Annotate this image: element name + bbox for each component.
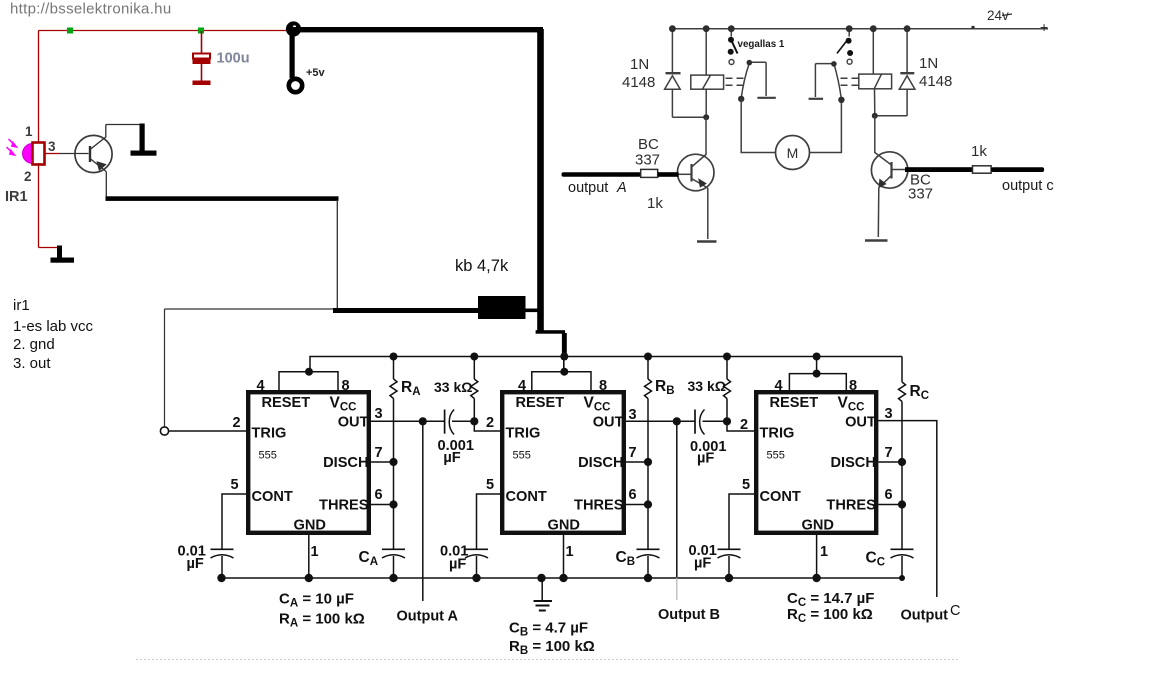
node bracket dot U1 — [305, 368, 313, 376]
svg-text:C: C — [950, 603, 960, 619]
label U2 pin names — [506, 395, 624, 534]
svg-text:337: 337 — [908, 186, 933, 203]
svg-text:5: 5 — [486, 477, 494, 493]
wire bottom rail — [222, 577, 903, 579]
svg-text:CONT: CONT — [760, 489, 801, 505]
svg-text:2. gnd: 2. gnd — [13, 336, 55, 353]
wire relay1 drop — [705, 29, 707, 75]
svg-text:7: 7 — [629, 445, 637, 461]
svg-text:µF: µF — [187, 556, 204, 572]
svg-text:8: 8 — [849, 378, 857, 394]
wire cont1 — [222, 494, 246, 549]
IR receiver IR1 body — [33, 143, 45, 165]
wire thin vertical to kb node — [336, 200, 338, 310]
svg-text:Output A: Output A — [397, 609, 459, 625]
wire thres2 — [626, 504, 648, 506]
relay K1 dashed link — [726, 78, 745, 85]
wire red IR down — [38, 163, 40, 248]
svg-text:THRES: THRES — [319, 498, 369, 514]
wire very thick vcc vertical — [537, 29, 544, 332]
resistor 1k A — [641, 169, 658, 177]
IR arrows — [7, 139, 17, 155]
svg-text:4148: 4148 — [919, 73, 952, 90]
node green junction 2 — [198, 28, 204, 34]
terminal +5v ring — [289, 79, 302, 92]
wire elbow horizontal — [536, 330, 566, 334]
svg-text:IR1: IR1 — [5, 189, 28, 205]
wire relay2 drop — [872, 29, 874, 74]
svg-text:output c: output c — [1002, 178, 1054, 194]
ground G2 thick — [51, 246, 75, 263]
wire disch2 — [626, 461, 648, 463]
node rail junction dots — [390, 353, 821, 361]
wire stub to bracket2 — [563, 356, 565, 372]
wire 555 top rail — [310, 357, 902, 372]
svg-text:7: 7 — [375, 445, 383, 461]
wire thres1 — [371, 504, 394, 506]
svg-text:RESET: RESET — [516, 395, 565, 411]
svg-text:4: 4 — [775, 378, 783, 394]
wire red to ground — [39, 247, 59, 249]
svg-text:1k: 1k — [647, 195, 663, 212]
svg-text:TRIG: TRIG — [760, 426, 795, 442]
svg-text:TRIG: TRIG — [506, 426, 541, 442]
svg-text:DISCH: DISCH — [830, 455, 875, 471]
svg-text:2: 2 — [24, 169, 32, 184]
switch vegallas1 — [728, 37, 738, 65]
wire vegallas2 drop — [848, 29, 850, 37]
transistor Q0 circle — [75, 135, 112, 172]
svg-text:RESET: RESET — [262, 395, 311, 411]
wire IR out dark to base — [60, 153, 89, 155]
capacitor 0.01uF 3 — [718, 548, 741, 550]
switch vegallas2 — [837, 38, 853, 64]
capacitor C 100u — [193, 31, 211, 85]
capacitor 0.01uF 2 — [465, 548, 488, 550]
wire pin4-pin8 bracket U2 — [532, 372, 591, 390]
svg-text:GND: GND — [802, 518, 834, 534]
svg-text:1: 1 — [820, 544, 828, 560]
svg-text:555: 555 — [513, 450, 531, 462]
wire trig1 — [169, 430, 246, 432]
resistor 33k 2 line — [726, 357, 728, 380]
resistor RB line — [647, 357, 649, 380]
wire bracket stub 3 — [816, 357, 818, 374]
svg-text:8: 8 — [599, 378, 607, 394]
svg-text:ir1: ir1 — [13, 297, 30, 314]
wire trig3 jog — [727, 421, 754, 431]
wire pin4-pin8 bracket U3 — [789, 374, 846, 390]
svg-text:2: 2 — [486, 415, 494, 431]
svg-text:kb 4,7k: kb 4,7k — [455, 257, 509, 275]
svg-text:http://bsselektronika.hu: http://bsselektronika.hu — [10, 1, 171, 18]
label pin numbers — [231, 378, 893, 560]
wire red left vertical — [38, 31, 40, 144]
svg-text:1: 1 — [566, 544, 574, 560]
wire cont2 — [477, 494, 501, 549]
svg-text:6: 6 — [885, 487, 893, 503]
svg-text:4: 4 — [257, 378, 265, 394]
wire gnd2 — [563, 535, 565, 578]
svg-text:µF: µF — [443, 450, 460, 466]
capacitor 0.001uF 1 — [444, 410, 446, 434]
label U1 pin names — [252, 395, 369, 534]
svg-text:OUT: OUT — [338, 415, 369, 431]
wire emitter down — [105, 172, 107, 199]
relay K1 coil — [691, 75, 724, 117]
svg-text:5: 5 — [742, 477, 750, 493]
svg-text:3: 3 — [48, 139, 56, 154]
node disch/thres junction dots — [389, 417, 906, 508]
op-amp timer U3 555 box — [756, 392, 876, 533]
node bracket dot U3 — [813, 370, 821, 378]
wire gnd1 — [308, 535, 310, 578]
svg-text:100u: 100u — [217, 51, 250, 67]
svg-text:GND: GND — [294, 518, 326, 534]
wire gnd3 — [816, 535, 818, 578]
svg-text:DISCH: DISCH — [323, 455, 368, 471]
wire thick output A — [562, 172, 642, 177]
wire collector to ground — [106, 124, 140, 126]
svg-text:OUT: OUT — [845, 415, 876, 431]
marquee dashed line — [136, 659, 958, 661]
svg-text:µF: µF — [697, 451, 714, 467]
wire out2 output line lower faint — [676, 578, 678, 600]
svg-text:3: 3 — [885, 406, 893, 422]
wire disch3 — [878, 461, 902, 463]
motor M loop left — [741, 99, 775, 153]
svg-text:M: M — [787, 145, 799, 161]
svg-text:A: A — [616, 180, 627, 196]
ground Q2 — [865, 239, 888, 242]
wire pin4-pin8 bracket U1 — [279, 372, 338, 390]
capacitor capacitor CB — [637, 548, 660, 550]
ground Q1 — [697, 240, 717, 243]
relay K2 coil — [859, 74, 907, 116]
op-amp timer U1 555 box — [248, 392, 369, 533]
svg-text:OUT: OUT — [593, 415, 624, 431]
node relay2 bottom dot — [872, 113, 878, 119]
ground earth symbol — [534, 578, 553, 611]
resistor kb 4,7k body — [478, 296, 526, 319]
wire cont1 stem — [221, 556, 223, 578]
svg-text:6: 6 — [629, 487, 637, 503]
svg-text:RESET: RESET — [770, 395, 819, 411]
svg-text:2: 2 — [233, 415, 241, 431]
transistor Q0 emitter with arrow — [90, 159, 106, 172]
transistor Q1 BC337 — [677, 117, 714, 239]
svg-text:µF: µF — [694, 556, 711, 572]
motor M loop right — [810, 100, 842, 153]
svg-text:5: 5 — [231, 477, 239, 493]
transistor Q0 base bar — [89, 146, 91, 162]
svg-text:THRES: THRES — [574, 498, 624, 514]
svg-text:THRES: THRES — [826, 498, 876, 514]
switch S2 contact — [809, 64, 842, 100]
wire thick output C — [892, 169, 908, 171]
wire thick to resistor — [333, 308, 479, 313]
svg-text:output: output — [568, 180, 608, 196]
wire +5v stem — [290, 33, 295, 78]
wire diode1 drop — [671, 29, 673, 73]
wire out2 — [626, 420, 694, 422]
motor M — [776, 136, 810, 170]
svg-text:337: 337 — [635, 152, 660, 169]
wire red +5v rail horizontal — [39, 30, 294, 32]
wire trig2 jog — [474, 421, 500, 431]
node rail dots — [669, 25, 975, 32]
svg-text:CONT: CONT — [506, 489, 547, 505]
svg-text:TRIG: TRIG — [252, 426, 287, 442]
wire 24v rail — [672, 28, 1048, 30]
wire cont3 — [729, 494, 754, 549]
terminal trig input circle — [160, 427, 168, 435]
wire out1 output line — [422, 421, 424, 601]
label U3 pin names — [760, 395, 877, 534]
svg-text:7: 7 — [885, 445, 893, 461]
node bottom rail dots — [217, 574, 905, 582]
svg-text:+5v: +5v — [306, 67, 326, 79]
wire cont2 stem — [476, 556, 478, 578]
svg-text:4: 4 — [518, 378, 526, 394]
svg-text:1: 1 — [25, 124, 33, 139]
diode D2 1N4148 — [899, 73, 915, 116]
relay K2 dashed link — [841, 78, 859, 85]
node green junction 1 — [67, 28, 73, 34]
svg-text:33 kΩ: 33 kΩ — [434, 379, 472, 395]
svg-text:GND: GND — [548, 518, 580, 534]
svg-text:+: + — [1040, 19, 1048, 35]
svg-text:555: 555 — [767, 450, 785, 462]
wire diode2 drop — [906, 29, 908, 73]
wire disch1 — [371, 461, 394, 463]
transistor Q2 BC337 — [871, 116, 907, 237]
svg-text:BC: BC — [638, 136, 659, 153]
wire thin vertical to trig terminal — [164, 309, 166, 427]
svg-text:4148: 4148 — [622, 74, 655, 91]
wire thick top to right — [293, 27, 543, 32]
svg-text:Output B: Output B — [658, 607, 720, 623]
svg-text:1N: 1N — [919, 55, 938, 72]
wire thin horizontal to trig — [165, 308, 338, 310]
svg-text:1N: 1N — [630, 56, 649, 73]
wire elbow vertical — [562, 333, 567, 360]
op-amp timer U2 555 box — [502, 392, 624, 533]
svg-text:1: 1 — [311, 544, 319, 560]
resistor RC line — [901, 357, 903, 383]
capacitor 0.01uF 1 — [211, 548, 234, 550]
wire out2 output line — [676, 421, 678, 577]
svg-text:DISCH: DISCH — [578, 455, 623, 471]
node terminal +5v top dot — [286, 21, 301, 36]
capacitor capacitor CC — [891, 548, 914, 550]
svg-text:8: 8 — [342, 378, 350, 394]
wire thres3 — [878, 504, 902, 506]
capacitor 0.001uF 2 — [694, 410, 696, 434]
wire cont3 stem — [728, 556, 730, 578]
wire vegallas1 drop — [730, 29, 732, 37]
node relay1 bottom dot — [703, 114, 709, 120]
node bracket dot U2 — [560, 368, 568, 376]
diode D1 1N4148 — [665, 73, 707, 117]
wire resistor to vcc — [526, 309, 540, 313]
svg-text:1k: 1k — [971, 143, 987, 160]
svg-text:CONT: CONT — [252, 489, 293, 505]
IR receiver IR1 dome — [23, 144, 33, 164]
svg-text:Output: Output — [901, 608, 949, 624]
wire IR out red — [45, 153, 61, 155]
wire out3 — [878, 421, 936, 597]
svg-text:1-es lab vcc: 1-es lab vcc — [13, 318, 94, 335]
svg-text:vegallas 1: vegallas 1 — [738, 39, 785, 50]
svg-text:555: 555 — [259, 450, 277, 462]
wire out1 — [371, 420, 444, 422]
svg-text:33 kΩ: 33 kΩ — [688, 378, 726, 394]
ground G1 thick — [131, 124, 157, 156]
svg-text:3. out: 3. out — [13, 355, 51, 372]
svg-text:µF: µF — [449, 557, 466, 573]
resistor 33k 1 line — [473, 357, 475, 380]
svg-text:6: 6 — [375, 487, 383, 503]
wire thick emitter horizontal — [106, 196, 339, 201]
transistor Q0 collector — [90, 125, 106, 150]
svg-text:3: 3 — [375, 406, 383, 422]
switch S1 contact — [741, 62, 776, 98]
resistor RA line — [393, 357, 395, 380]
resistor 1k C — [973, 166, 992, 173]
capacitor capacitor CA — [382, 548, 405, 550]
